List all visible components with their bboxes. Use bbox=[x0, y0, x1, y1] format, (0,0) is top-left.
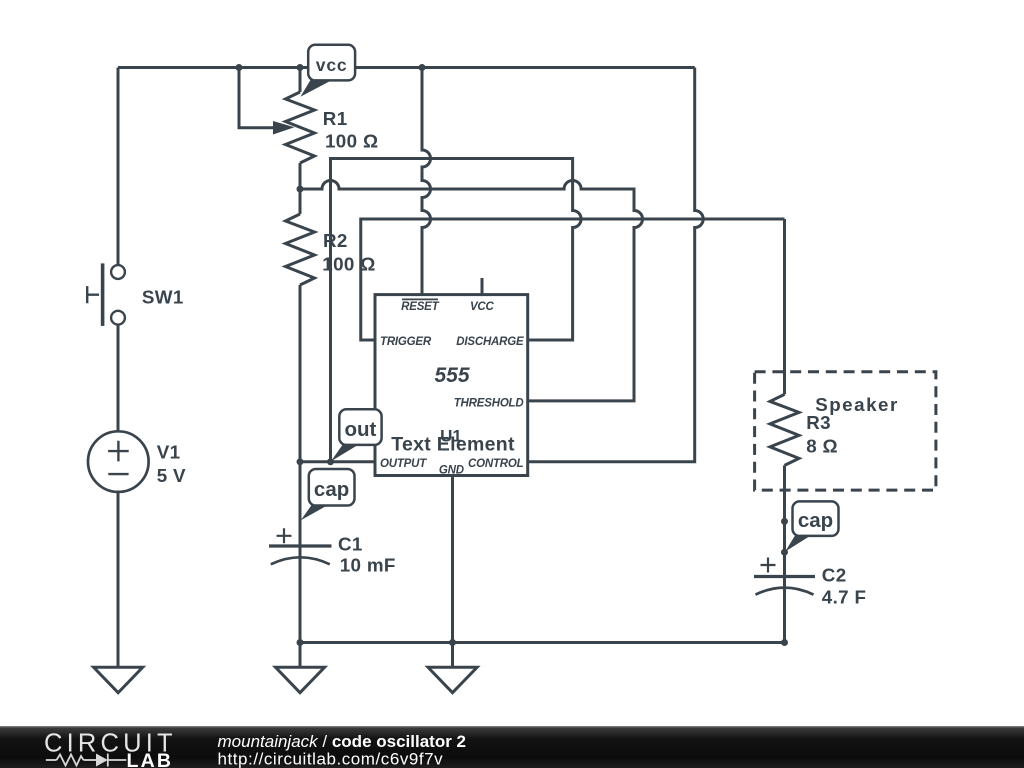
svg-text:R2: R2 bbox=[323, 230, 348, 251]
wire speaker drop to R3 bbox=[783, 219, 786, 394]
wire GND pin to ground bbox=[451, 476, 454, 668]
node dot output-cap bbox=[297, 458, 304, 465]
wire SW1 to V1 bbox=[117, 325, 120, 432]
node dot cap flag attach bbox=[781, 549, 788, 556]
wire THRESHOLD to R1-R2 junction net bbox=[300, 181, 643, 401]
svg-text:100 Ω: 100 Ω bbox=[325, 131, 378, 152]
svg-text:4.7 F: 4.7 F bbox=[822, 587, 867, 608]
footer bar bbox=[0, 726, 1024, 768]
node dot rail-GND bbox=[449, 639, 456, 646]
net flag cap (C2) bbox=[785, 501, 838, 551]
svg-text:http://circuitlab.com/c6v9f7v: http://circuitlab.com/c6v9f7v bbox=[218, 750, 444, 768]
wire C1 to ground bbox=[299, 558, 302, 668]
svg-text:CONTROL: CONTROL bbox=[468, 458, 524, 470]
svg-text:V1: V1 bbox=[157, 441, 181, 462]
node dot speaker-C2 upper bbox=[781, 518, 788, 525]
wire VCC pin stub bbox=[481, 278, 484, 295]
wire R2 to C1 bbox=[299, 285, 302, 557]
wire OUTPUT pin bbox=[300, 460, 375, 463]
svg-text:LAB: LAB bbox=[127, 750, 174, 768]
wire R1 top stub bbox=[299, 68, 302, 93]
svg-text:100 Ω: 100 Ω bbox=[322, 254, 375, 275]
resistor R3 bbox=[770, 394, 799, 465]
ground (V1) bbox=[94, 667, 143, 692]
capacitor C2 bbox=[754, 558, 815, 595]
node dot R1-R2-threshold bbox=[297, 186, 304, 193]
wire RESET riser with hops bbox=[422, 68, 431, 295]
resistor R1 (potentiometer) bbox=[273, 92, 315, 163]
wire C2 to rail bbox=[783, 589, 786, 643]
wire R3 to C2 bbox=[783, 465, 786, 587]
svg-text:RESET: RESET bbox=[401, 301, 440, 313]
svg-text:C2: C2 bbox=[822, 565, 847, 586]
resistor R2 bbox=[286, 214, 315, 285]
svg-text:R3: R3 bbox=[806, 412, 831, 433]
wire bottom ground rail bbox=[300, 641, 785, 644]
logo resistor-diode squiggle bbox=[46, 754, 127, 767]
svg-text:cap: cap bbox=[798, 509, 833, 532]
svg-text:5 V: 5 V bbox=[157, 465, 186, 486]
net flag out bbox=[331, 409, 382, 461]
node dot rail-R1 bbox=[297, 64, 304, 71]
svg-text:8 Ω: 8 Ω bbox=[806, 436, 838, 457]
node dot rail-RESET bbox=[419, 64, 426, 71]
voltage source V1 bbox=[88, 431, 149, 492]
wire left drop to SW1 bbox=[117, 68, 120, 266]
wire top rail vcc net bbox=[118, 66, 695, 69]
svg-text:out: out bbox=[344, 418, 376, 441]
svg-text:THRESHOLD: THRESHOLD bbox=[454, 398, 524, 410]
node dot rail-wiper bbox=[236, 64, 243, 71]
node dot rail-C1 bbox=[297, 639, 304, 646]
svg-text:DISCHARGE: DISCHARGE bbox=[456, 336, 524, 348]
wire R1 to R2 bbox=[299, 163, 302, 214]
node dot output-discharge bbox=[327, 458, 334, 465]
wire TRIGGER to speaker net bbox=[361, 219, 785, 340]
svg-text:555: 555 bbox=[434, 364, 469, 387]
svg-text:mountainjack / code oscillator: mountainjack / code oscillator 2 bbox=[218, 732, 467, 751]
wire V1 to ground bbox=[117, 492, 120, 667]
svg-text:TRIGGER: TRIGGER bbox=[380, 336, 432, 348]
svg-text:SW1: SW1 bbox=[142, 286, 184, 307]
svg-text:Text Element: Text Element bbox=[391, 433, 515, 455]
node dot rail-C2 bbox=[781, 639, 788, 646]
wire DISCHARGE to OUTPUT net bbox=[331, 159, 582, 462]
svg-text:cap: cap bbox=[314, 478, 349, 501]
net flag cap (C1) bbox=[301, 469, 355, 520]
svg-text:OUTPUT: OUTPUT bbox=[380, 458, 427, 470]
speaker dashed box bbox=[755, 372, 936, 490]
wire CONTROL riser to rail bbox=[528, 68, 704, 462]
svg-text:GND: GND bbox=[439, 464, 464, 476]
ground (U1 GND) bbox=[428, 667, 477, 692]
svg-text:10 mF: 10 mF bbox=[340, 555, 396, 576]
IC U1 555 timer box bbox=[375, 295, 528, 476]
net flag vcc bbox=[300, 45, 355, 97]
switch SW1 bbox=[87, 263, 125, 326]
svg-text:R1: R1 bbox=[323, 108, 348, 129]
ground (C1) bbox=[276, 667, 325, 692]
svg-text:VCC: VCC bbox=[470, 301, 495, 313]
wire R1 wiper to rail bbox=[239, 68, 274, 128]
svg-text:C1: C1 bbox=[338, 534, 363, 555]
capacitor C1 bbox=[269, 528, 332, 564]
svg-text:vcc: vcc bbox=[316, 55, 348, 75]
